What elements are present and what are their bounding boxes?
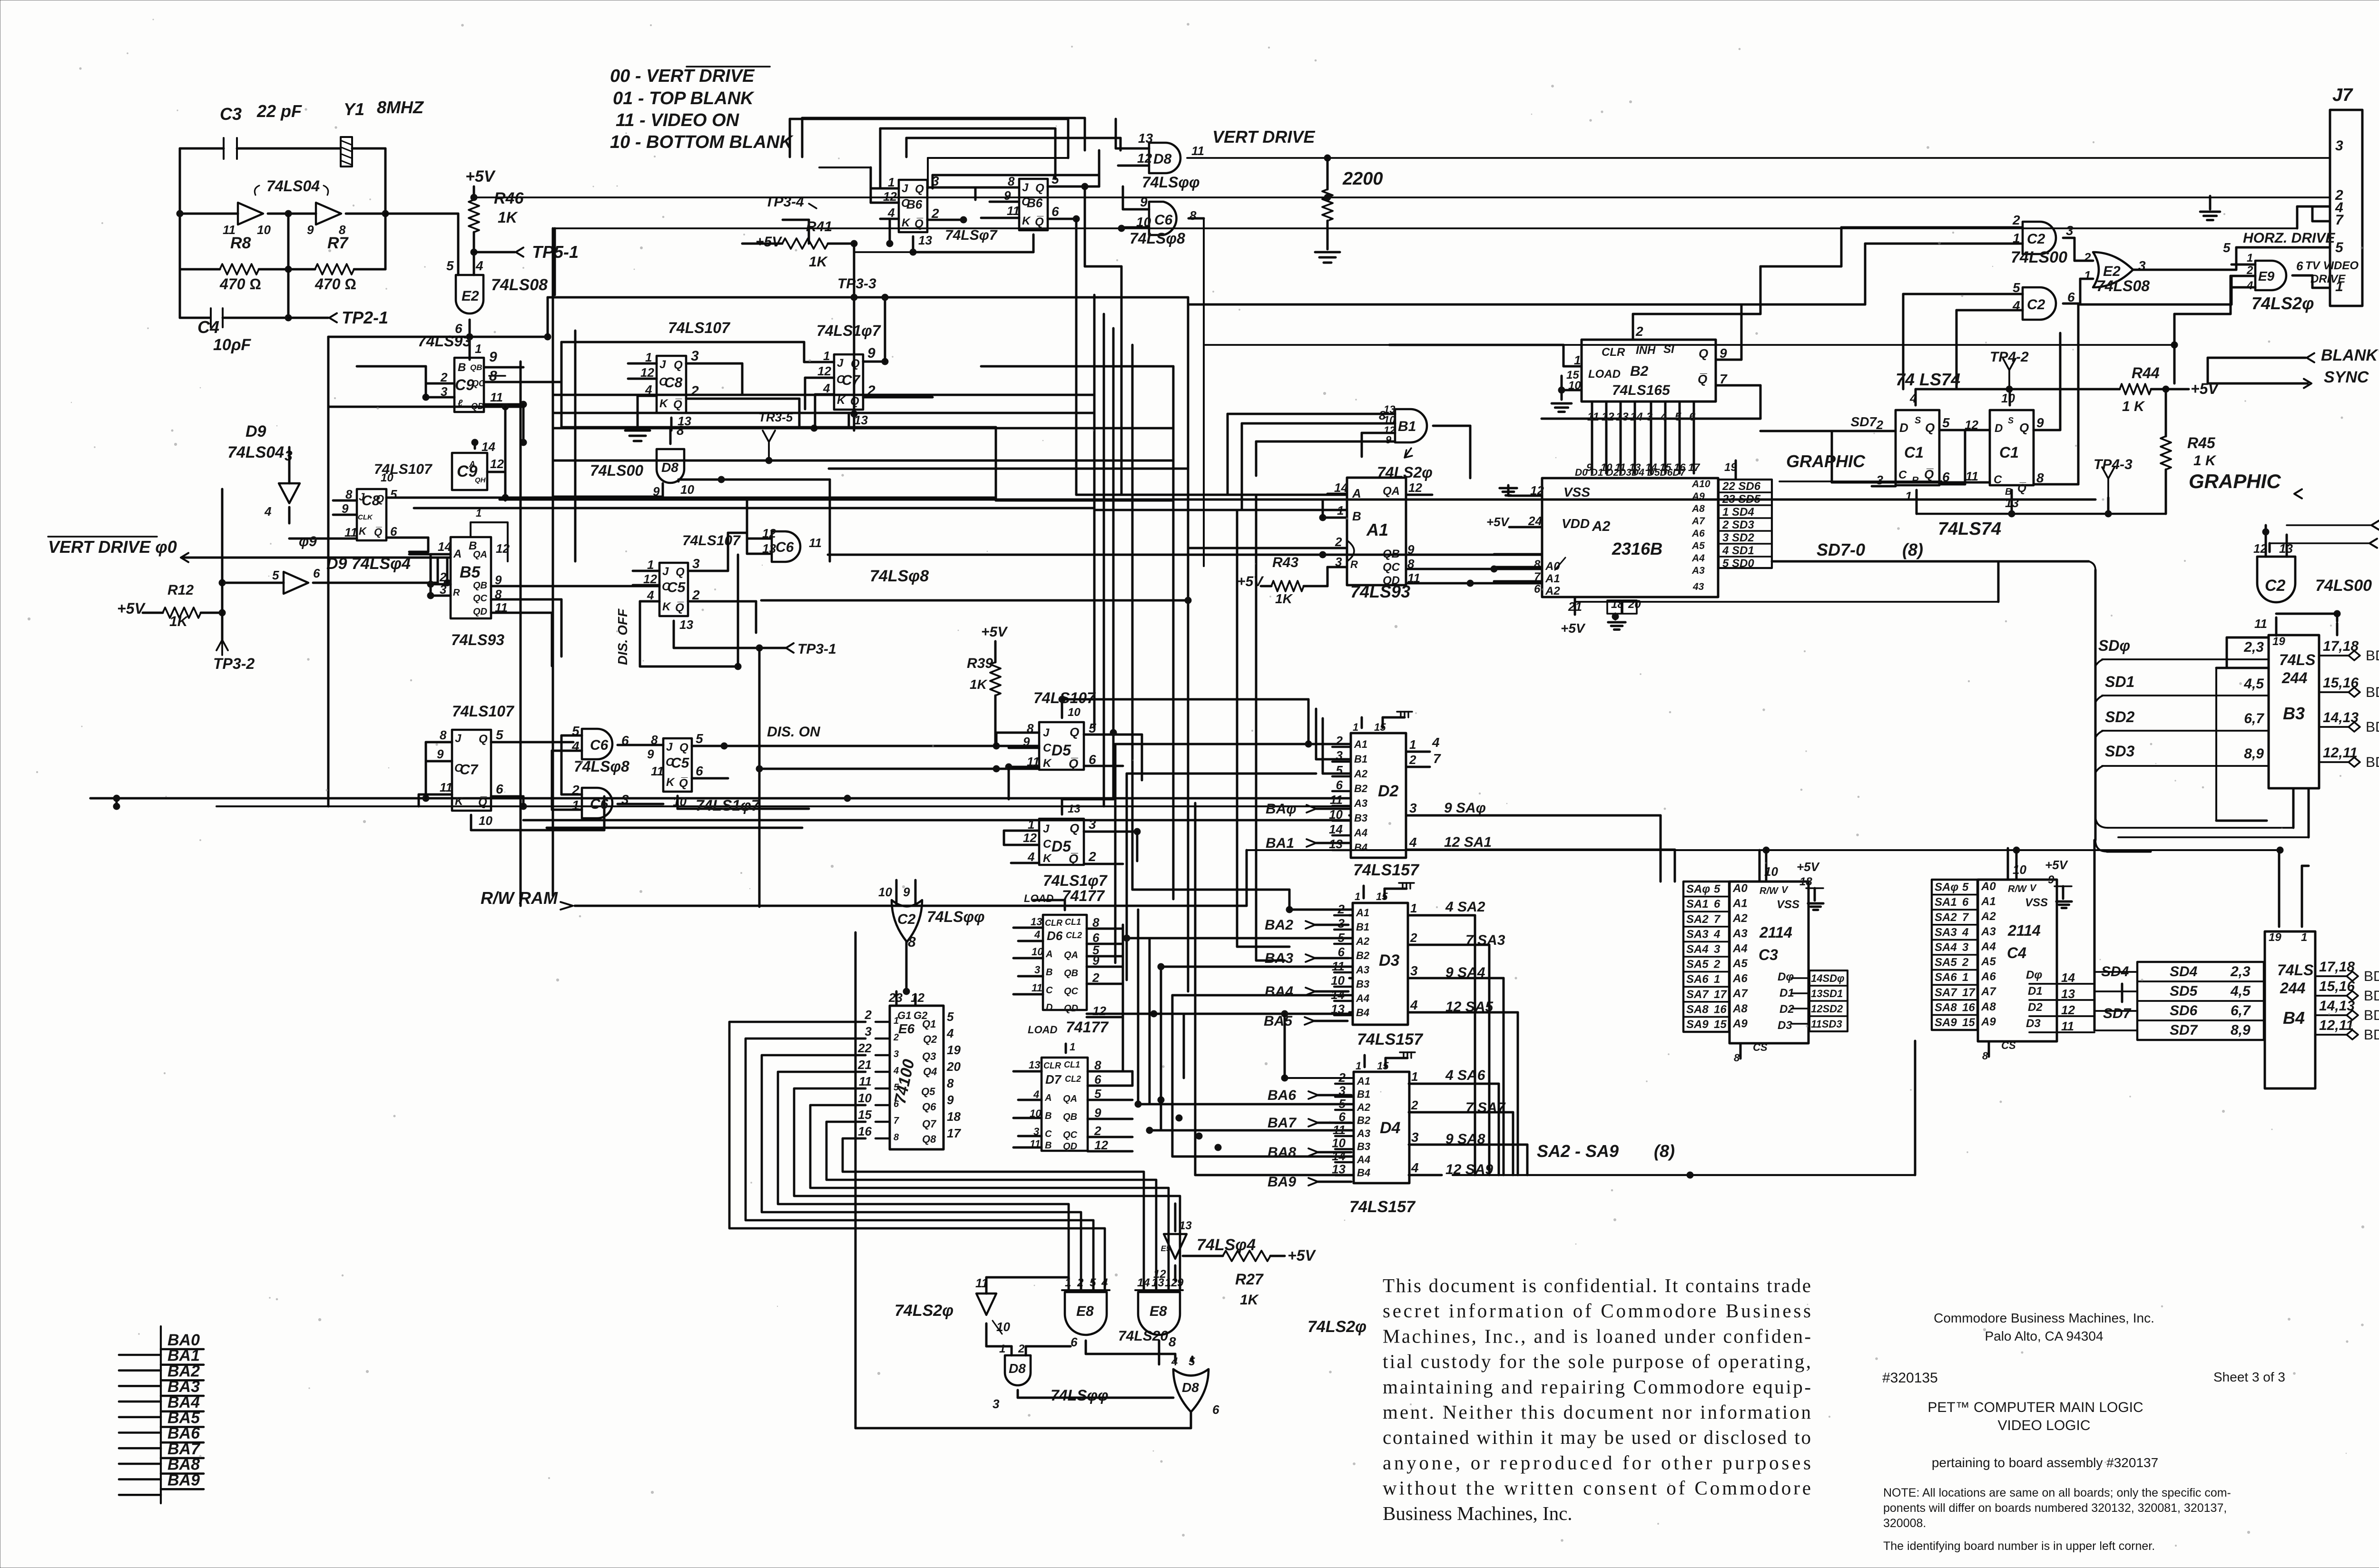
svg-text:J: J — [666, 741, 673, 754]
svg-text:5: 5 — [1339, 1097, 1346, 1111]
svg-text:Q7: Q7 — [922, 1118, 937, 1130]
svg-text:14: 14 — [1630, 411, 1643, 423]
svg-text:5: 5 — [272, 568, 279, 582]
svg-text:7: 7 — [1714, 913, 1721, 926]
svg-text:QC: QC — [1383, 561, 1400, 574]
svg-text:7: 7 — [2335, 212, 2344, 228]
svg-text:3: 3 — [2335, 138, 2343, 154]
svg-text:2: 2 — [692, 588, 700, 602]
svg-text:74LS1φ7: 74LS1φ7 — [816, 322, 882, 339]
svg-text:1: 1 — [1905, 489, 1912, 503]
svg-text:5: 5 — [1714, 883, 1720, 896]
svg-text:3: 3 — [1034, 964, 1040, 976]
svg-text:74LS1φ7: 74LS1φ7 — [696, 797, 761, 814]
svg-text:BD1: BD1 — [2366, 685, 2379, 700]
svg-text:CL2: CL2 — [1065, 1074, 1081, 1084]
svg-text:74LS08: 74LS08 — [491, 276, 548, 294]
svg-text:8: 8 — [1379, 408, 1386, 422]
svg-text:BD5: BD5 — [2364, 988, 2379, 1004]
svg-text:10: 10 — [996, 1320, 1010, 1334]
svg-text:A3: A3 — [1356, 964, 1369, 976]
svg-text:7: 7 — [1720, 372, 1728, 386]
svg-text:74LS107: 74LS107 — [682, 533, 741, 549]
svg-text:B: B — [1045, 1111, 1052, 1121]
svg-text:8: 8 — [1982, 1050, 1988, 1062]
svg-text:D8: D8 — [1182, 1380, 1199, 1395]
svg-text:3: 3 — [865, 1024, 872, 1039]
svg-text:C1: C1 — [1904, 444, 1924, 461]
svg-text:A: A — [1044, 1093, 1052, 1103]
svg-text:74LS2φ: 74LS2φ — [895, 1302, 954, 1320]
svg-text:B: B — [1045, 1140, 1052, 1151]
svg-text:D6: D6 — [1047, 929, 1063, 943]
svg-text:12: 12 — [1137, 151, 1152, 166]
svg-text:4: 4 — [1409, 835, 1417, 850]
svg-text:10: 10 — [878, 885, 892, 899]
svg-text:E9: E9 — [2258, 269, 2275, 284]
svg-text:A2: A2 — [1354, 768, 1368, 780]
svg-text:7: 7 — [894, 1116, 899, 1126]
svg-text:12: 12 — [1408, 480, 1422, 495]
svg-text:8: 8 — [947, 1076, 954, 1090]
svg-text:SA3: SA3 — [1686, 928, 1709, 941]
svg-text:LOAD: LOAD — [1588, 368, 1621, 381]
svg-text:4,5: 4,5 — [2230, 983, 2251, 999]
svg-text:Q: Q — [1925, 421, 1935, 435]
svg-text:12: 12 — [1023, 831, 1037, 845]
svg-text:SA8: SA8 — [1935, 1001, 1957, 1014]
svg-text:2: 2 — [690, 383, 699, 399]
svg-text:C5: C5 — [671, 755, 690, 771]
svg-text:A1: A1 — [1357, 1075, 1370, 1087]
svg-text:A6: A6 — [1981, 970, 1996, 983]
svg-text:QC: QC — [473, 593, 488, 604]
svg-text:5: 5 — [2013, 280, 2020, 295]
svg-text:CLR: CLR — [1043, 1061, 1061, 1070]
svg-text:K: K — [1022, 215, 1031, 227]
svg-text:1K: 1K — [1275, 591, 1293, 606]
svg-text:SD7-0: SD7-0 — [1817, 540, 1865, 559]
svg-text:SD6: SD6 — [2170, 1003, 2198, 1019]
svg-text:B1: B1 — [1356, 921, 1369, 933]
svg-text:C̅S̅: C̅S̅ — [2001, 1039, 2016, 1051]
svg-text:D3: D3 — [2026, 1017, 2041, 1030]
svg-text:D8: D8 — [1153, 151, 1172, 167]
svg-text:+5V: +5V — [981, 624, 1008, 640]
svg-text:C4: C4 — [2007, 944, 2026, 961]
svg-text:3: 3 — [1409, 801, 1417, 815]
svg-text:16: 16 — [1714, 1003, 1727, 1016]
svg-text:3: 3 — [1962, 941, 1969, 954]
svg-text:244: 244 — [2281, 669, 2308, 686]
svg-text:19: 19 — [947, 1043, 961, 1057]
svg-text:BA9: BA9 — [167, 1471, 200, 1489]
svg-text:9: 9 — [2036, 415, 2044, 430]
svg-text:13: 13 — [1068, 803, 1081, 815]
svg-text:Y1: Y1 — [344, 99, 364, 119]
svg-text:13: 13 — [1332, 1162, 1346, 1176]
svg-text:D4: D4 — [1380, 1119, 1401, 1137]
svg-text:Q̅: Q̅ — [675, 601, 684, 614]
svg-text:2114: 2114 — [1759, 924, 1792, 941]
svg-text:A2: A2 — [1592, 519, 1611, 534]
svg-text:9: 9 — [947, 1093, 954, 1107]
svg-text:E2: E2 — [462, 288, 479, 304]
svg-text:2: 2 — [1088, 849, 1096, 864]
svg-text:8,9: 8,9 — [2244, 746, 2264, 762]
svg-text:1: 1 — [1962, 971, 1968, 984]
svg-text:A5: A5 — [1981, 955, 1996, 968]
svg-text:B: B — [458, 361, 466, 374]
svg-text:5 SD0: 5 SD0 — [1722, 557, 1754, 570]
svg-text:10: 10 — [673, 794, 687, 809]
svg-text:C: C — [1043, 742, 1052, 755]
svg-text:D8: D8 — [1009, 1361, 1026, 1376]
svg-text:1: 1 — [1070, 1041, 1075, 1053]
svg-text:B4: B4 — [1354, 842, 1367, 853]
svg-text:14: 14 — [1331, 988, 1345, 1002]
svg-text:Q̅: Q̅ — [2017, 482, 2026, 495]
svg-text:VSS: VSS — [1563, 485, 1590, 500]
svg-text:5: 5 — [2335, 240, 2344, 255]
svg-text:15: 15 — [1374, 721, 1386, 733]
svg-text:Q: Q — [1699, 346, 1708, 361]
svg-text:3: 3 — [1410, 963, 1418, 978]
svg-text:A3: A3 — [1357, 1127, 1370, 1139]
svg-text:Q4: Q4 — [923, 1066, 937, 1078]
svg-text:6: 6 — [1071, 1335, 1078, 1349]
svg-text:4: 4 — [2246, 279, 2253, 292]
svg-text:A7: A7 — [1732, 987, 1748, 1000]
svg-text:5: 5 — [947, 1009, 954, 1024]
svg-text:2: 2 — [2012, 213, 2020, 227]
svg-text:15: 15 — [1714, 1018, 1727, 1031]
svg-text:3: 3 — [2066, 223, 2074, 238]
svg-text:J: J — [1043, 726, 1050, 739]
svg-text:01 - TOP BLANK: 01 - TOP BLANK — [613, 88, 755, 108]
svg-text:G1: G1 — [897, 1009, 911, 1021]
svg-text:QB: QB — [470, 363, 482, 372]
svg-text:11: 11 — [651, 764, 664, 778]
svg-text:A0: A0 — [1732, 882, 1748, 895]
svg-text:DIS. ON: DIS. ON — [767, 724, 821, 740]
svg-text:4: 4 — [1034, 929, 1040, 941]
svg-text:C4: C4 — [197, 317, 219, 337]
svg-text:00 - VERT DRIVE: 00 - VERT DRIVE — [610, 66, 755, 86]
svg-text:DRIVE: DRIVE — [2310, 273, 2346, 285]
svg-text:2: 2 — [931, 206, 939, 221]
svg-text:Q̅: Q̅ — [374, 526, 382, 538]
svg-text:21: 21 — [857, 1058, 872, 1072]
svg-text:Q: Q — [679, 741, 688, 754]
svg-text:C2: C2 — [897, 911, 916, 927]
svg-text:Q: Q — [915, 183, 924, 196]
svg-text:SD7: SD7 — [2103, 1006, 2132, 1021]
svg-text:3 SD2: 3 SD2 — [1722, 531, 1754, 544]
svg-text:QC: QC — [472, 379, 485, 388]
svg-text:4: 4 — [946, 1026, 954, 1040]
svg-text:Dφ: Dφ — [1778, 970, 1794, 983]
svg-text:18: 18 — [947, 1109, 961, 1124]
svg-text:This document is confidential.: This document is confidential. It contai… — [1383, 1274, 1811, 1296]
svg-text:The identifying board number i: The identifying board number is in upper… — [1883, 1539, 2155, 1553]
svg-text:4 SD1: 4 SD1 — [1722, 544, 1754, 557]
svg-text:5: 5 — [446, 258, 454, 273]
svg-text:(8): (8) — [1654, 1141, 1675, 1161]
svg-text:14SDφ: 14SDφ — [1811, 972, 1845, 984]
svg-text:J: J — [455, 732, 462, 745]
svg-text:11: 11 — [2061, 1019, 2074, 1033]
svg-text:74LSφ8: 74LSφ8 — [870, 567, 929, 585]
svg-text:SD1: SD1 — [2105, 673, 2134, 690]
svg-text:11: 11 — [2254, 617, 2267, 631]
svg-text:9: 9 — [307, 223, 314, 237]
svg-text:C6: C6 — [590, 796, 609, 812]
svg-text:SA5: SA5 — [1935, 956, 1957, 969]
svg-text:Q̅: Q̅ — [1035, 216, 1044, 228]
svg-text:B2: B2 — [1630, 363, 1649, 379]
svg-text:19: 19 — [2269, 931, 2281, 944]
svg-text:3: 3 — [993, 1397, 1000, 1411]
svg-text:A5: A5 — [1732, 957, 1748, 970]
svg-text:VSS: VSS — [1777, 898, 1799, 911]
svg-text:22: 22 — [857, 1041, 872, 1055]
svg-text:K: K — [455, 795, 464, 808]
svg-text:3: 3 — [1411, 1130, 1419, 1145]
svg-text:1: 1 — [894, 1016, 899, 1026]
svg-text:SA4: SA4 — [1935, 941, 1957, 954]
svg-text:CLR: CLR — [1602, 346, 1625, 359]
svg-text:J: J — [659, 358, 666, 371]
svg-text:B4: B4 — [1357, 1167, 1370, 1179]
svg-text:BA4: BA4 — [1265, 984, 1293, 1000]
svg-text:R41: R41 — [806, 219, 832, 235]
svg-text:Sheet 3 of 3: Sheet 3 of 3 — [2213, 1370, 2285, 1384]
svg-text:A0: A0 — [1981, 880, 1996, 893]
svg-text:6: 6 — [1714, 898, 1720, 911]
svg-text:13: 13 — [918, 233, 932, 247]
svg-text:6: 6 — [1212, 1402, 1219, 1417]
svg-text:2: 2 — [1411, 1098, 1418, 1112]
svg-text:Q3: Q3 — [922, 1050, 936, 1062]
svg-text:CLK: CLK — [358, 513, 373, 521]
svg-text:B3: B3 — [1354, 812, 1367, 824]
svg-text:1K: 1K — [169, 614, 189, 629]
svg-text:QD: QD — [473, 607, 487, 617]
svg-text:VIDEO LOGIC: VIDEO LOGIC — [1997, 1418, 2090, 1433]
svg-text:Q2: Q2 — [923, 1033, 937, 1045]
svg-text:2114: 2114 — [2007, 922, 2041, 939]
svg-text:SD3: SD3 — [2105, 743, 2134, 760]
svg-text:74 LS74: 74 LS74 — [1896, 370, 1960, 389]
svg-text:K: K — [359, 525, 367, 537]
svg-text:13: 13 — [2061, 987, 2075, 1001]
svg-text:12: 12 — [490, 457, 504, 471]
svg-text:C5: C5 — [667, 580, 686, 596]
svg-text:1: 1 — [1353, 721, 1358, 733]
svg-text:J: J — [662, 565, 669, 578]
svg-text:Q: Q — [1035, 182, 1044, 195]
svg-text:15: 15 — [1377, 1060, 1389, 1072]
svg-text:B4: B4 — [1356, 1007, 1369, 1019]
svg-text:74LSφ7: 74LSφ7 — [945, 227, 998, 243]
svg-text:E8: E8 — [1076, 1303, 1094, 1319]
svg-text:22 SD6: 22 SD6 — [1722, 480, 1761, 493]
svg-text:Q: Q — [676, 566, 685, 578]
svg-text:74LS157: 74LS157 — [1357, 1030, 1424, 1049]
svg-text:Business Machines, Inc.: Business Machines, Inc. — [1383, 1502, 1573, 1524]
svg-text:A3: A3 — [1354, 797, 1367, 809]
svg-text:320008.: 320008. — [1883, 1517, 1926, 1530]
svg-text:C6: C6 — [776, 539, 794, 555]
svg-text:Dφ: Dφ — [2026, 969, 2042, 981]
svg-text:6: 6 — [1052, 204, 1059, 219]
svg-text:9: 9 — [647, 747, 654, 761]
svg-text:Q: Q — [479, 733, 488, 745]
svg-text:SA6: SA6 — [1935, 971, 1957, 984]
svg-text:14,13: 14,13 — [2319, 998, 2355, 1014]
svg-text:VERT DRIVE φ0: VERT DRIVE φ0 — [48, 537, 177, 557]
svg-text:11: 11 — [490, 390, 503, 404]
svg-text:C7: C7 — [460, 762, 479, 778]
svg-text:A1: A1 — [1366, 520, 1388, 539]
svg-text:74177: 74177 — [1066, 1019, 1109, 1036]
svg-text:1: 1 — [1411, 1069, 1418, 1084]
svg-text:R: R — [1350, 559, 1358, 570]
svg-text:A4: A4 — [1357, 1154, 1370, 1166]
svg-text:SA8: SA8 — [1686, 1003, 1709, 1016]
svg-text:2,3: 2,3 — [2230, 964, 2251, 980]
svg-text:1 SD4: 1 SD4 — [1722, 506, 1754, 519]
svg-text:CL1: CL1 — [1064, 1060, 1080, 1069]
svg-text:A9: A9 — [1981, 1015, 1996, 1028]
svg-text:C6: C6 — [590, 737, 609, 753]
svg-text:QB: QB — [1064, 968, 1078, 979]
svg-text:12: 12 — [496, 541, 510, 556]
svg-text:10: 10 — [1332, 1136, 1346, 1150]
svg-text:2200: 2200 — [1342, 169, 1383, 189]
svg-text:4: 4 — [1171, 1355, 1178, 1368]
svg-text:A: A — [1045, 949, 1052, 960]
svg-text:5: 5 — [2223, 240, 2231, 255]
svg-text:K: K — [902, 216, 911, 229]
svg-text:Q̅: Q̅ — [1698, 372, 1707, 386]
svg-text:A4: A4 — [1691, 553, 1705, 564]
svg-text:R8: R8 — [230, 234, 251, 252]
svg-text:6,7: 6,7 — [2244, 711, 2264, 726]
svg-text:R43: R43 — [1272, 555, 1298, 570]
svg-text:R46: R46 — [494, 189, 524, 207]
svg-text:16: 16 — [1962, 1001, 1975, 1014]
svg-text:A8: A8 — [1732, 1002, 1748, 1015]
svg-text:GRAPHIC: GRAPHIC — [2189, 470, 2281, 492]
svg-text:5: 5 — [1942, 415, 1950, 430]
svg-text:BA7: BA7 — [1268, 1115, 1297, 1131]
svg-text:3: 3 — [1646, 411, 1653, 423]
svg-text:74LS107: 74LS107 — [668, 319, 731, 336]
svg-text:+5V: +5V — [465, 167, 496, 186]
svg-text:7: 7 — [1433, 751, 1441, 766]
svg-text:R/W: R/W — [2008, 884, 2027, 894]
svg-text:BD7: BD7 — [2364, 1027, 2379, 1043]
svg-text:4: 4 — [475, 258, 483, 273]
svg-text:5: 5 — [1336, 763, 1343, 777]
svg-text:74LSφφ: 74LSφφ — [1051, 1387, 1109, 1404]
svg-text:J7: J7 — [2332, 85, 2353, 105]
svg-text:2: 2 — [893, 1032, 899, 1043]
svg-text:A3: A3 — [1691, 565, 1705, 576]
svg-text:A1: A1 — [1354, 738, 1367, 750]
svg-text:R39: R39 — [967, 656, 993, 671]
svg-text:11: 11 — [1032, 982, 1042, 994]
svg-text:QA: QA — [473, 549, 487, 560]
svg-text:BA3: BA3 — [1265, 951, 1293, 966]
svg-text:13: 13 — [1616, 411, 1629, 423]
svg-text:4 SA2: 4 SA2 — [1445, 899, 1485, 915]
svg-text:1K: 1K — [970, 677, 988, 692]
svg-text:A1: A1 — [1732, 897, 1748, 910]
svg-text:14: 14 — [482, 440, 495, 454]
svg-text:SA9: SA9 — [1686, 1018, 1709, 1031]
svg-text:3: 3 — [1714, 943, 1720, 956]
svg-text:74LS1φ7: 74LS1φ7 — [1043, 872, 1108, 889]
svg-text:Q6: Q6 — [922, 1101, 936, 1113]
svg-text:8MHZ: 8MHZ — [377, 98, 424, 117]
svg-text:B2: B2 — [1356, 950, 1370, 961]
svg-text:2: 2 — [865, 1008, 872, 1022]
svg-text:HORZ. DRIVE: HORZ. DRIVE — [2243, 230, 2335, 246]
svg-text:2,3: 2,3 — [2243, 639, 2264, 655]
svg-text:10: 10 — [2013, 862, 2026, 877]
svg-text:10ρF: 10ρF — [213, 336, 251, 354]
svg-text:D2: D2 — [1378, 782, 1399, 800]
svg-text:10 - BOTTOM BLANK: 10 - BOTTOM BLANK — [610, 132, 794, 152]
svg-text:Q1: Q1 — [922, 1018, 936, 1030]
svg-text:74LS74: 74LS74 — [1938, 519, 2001, 539]
svg-text:2: 2 — [1018, 1343, 1025, 1355]
svg-text:1: 1 — [1410, 901, 1417, 915]
svg-text:K: K — [666, 776, 675, 789]
svg-text:SA9: SA9 — [1935, 1016, 1957, 1029]
svg-text:C8: C8 — [664, 375, 683, 391]
svg-text:BA5: BA5 — [1264, 1013, 1293, 1029]
svg-text:17: 17 — [1714, 988, 1727, 1001]
svg-text:5: 5 — [390, 487, 397, 501]
svg-text:11: 11 — [1332, 959, 1345, 973]
svg-text:17,18: 17,18 — [2319, 959, 2355, 975]
svg-text:ponents will differ on boards: ponents will differ on boards numbered 3… — [1883, 1501, 2227, 1515]
svg-text:SA6: SA6 — [1686, 973, 1709, 986]
svg-text:C: C — [1045, 1129, 1052, 1139]
svg-text:6: 6 — [1962, 896, 1969, 909]
svg-text:D: D — [1995, 422, 2003, 435]
svg-text:R: R — [453, 588, 460, 598]
svg-text:9: 9 — [2048, 873, 2055, 886]
svg-text:B4: B4 — [2283, 1008, 2305, 1028]
svg-text:4: 4 — [1411, 1160, 1419, 1175]
svg-text:11 - VIDEO ON: 11 - VIDEO ON — [616, 110, 740, 130]
svg-text:11: 11 — [809, 536, 822, 550]
svg-text:15,16: 15,16 — [2319, 979, 2355, 994]
svg-text:QH: QH — [475, 476, 486, 484]
svg-text:J: J — [1043, 823, 1050, 835]
svg-text:2: 2 — [2084, 250, 2091, 265]
svg-text:Q̅: Q̅ — [478, 796, 487, 809]
svg-text:12: 12 — [1965, 418, 1978, 432]
svg-text:B2: B2 — [1357, 1115, 1371, 1127]
svg-text:11: 11 — [440, 780, 452, 794]
svg-text:VERT DRIVE: VERT DRIVE — [1212, 127, 1315, 147]
